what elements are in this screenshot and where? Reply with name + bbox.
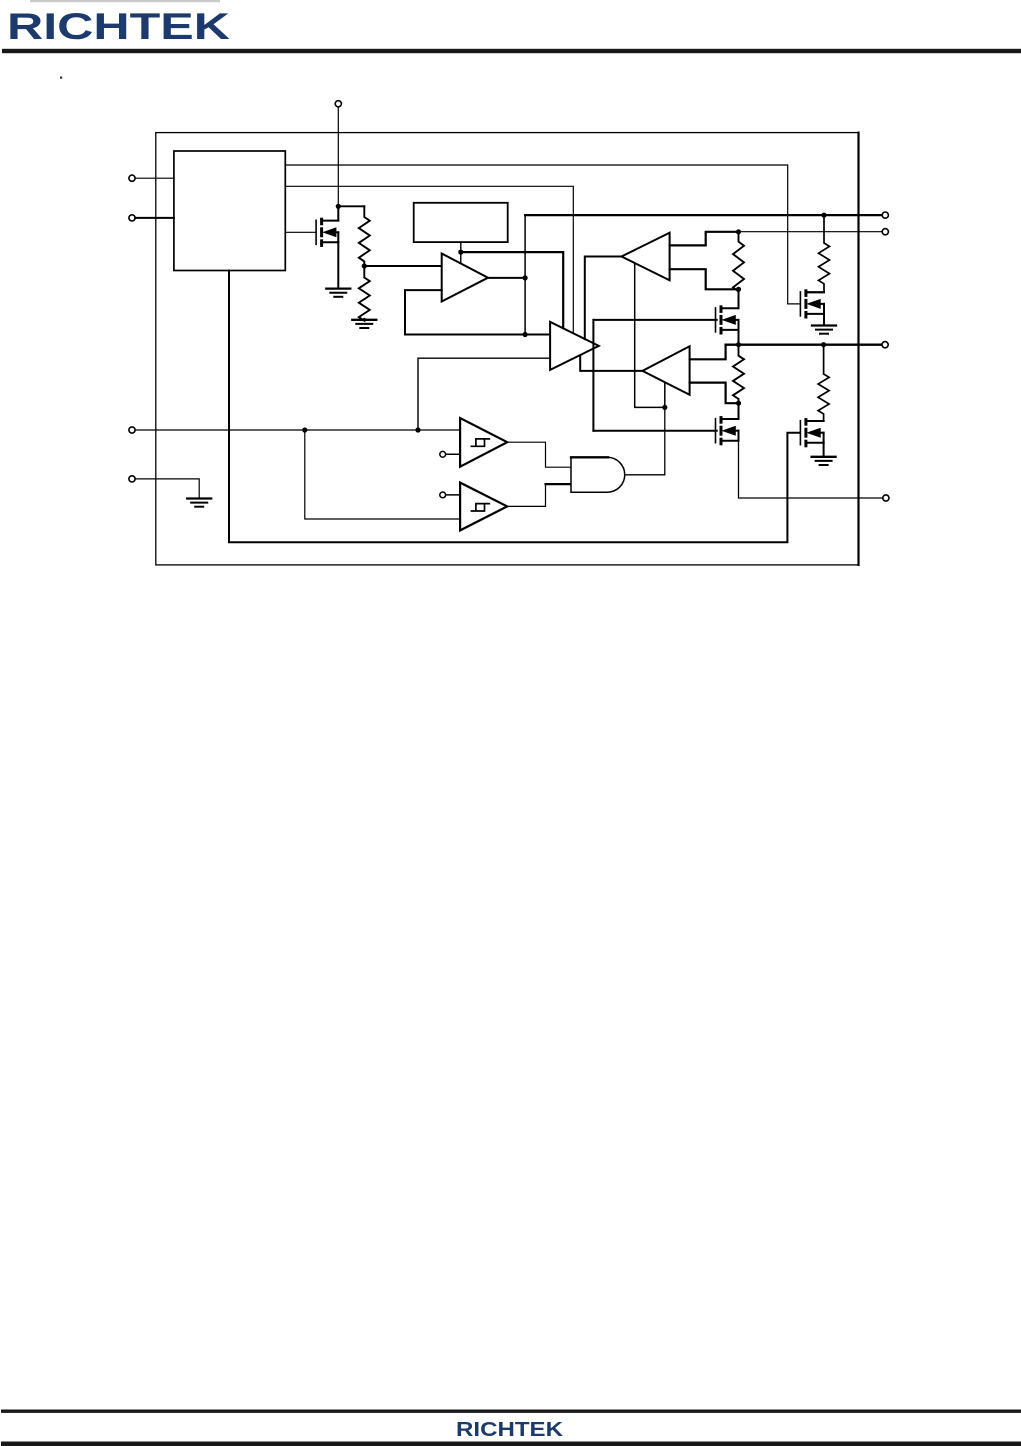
wire M4 drain up <box>738 403 740 419</box>
scan artifact top edge <box>30 0 220 2</box>
node C junction <box>458 250 463 255</box>
comparator CMP2 <box>643 346 690 395</box>
control block U1 <box>174 151 285 271</box>
pin OUT4 terminal <box>883 495 889 501</box>
wire OA1 output <box>488 277 525 279</box>
IC boundary box <box>156 133 859 565</box>
wire gate link M2/M4 <box>592 320 594 431</box>
wire IN bus <box>525 214 882 216</box>
node H junction (R3 bottom) <box>736 287 741 292</box>
wire ST2 out to AND <box>507 484 545 506</box>
bubble input ST2 <box>440 492 446 498</box>
header rule <box>2 49 1021 53</box>
wire ST2 bubble stub <box>446 494 461 496</box>
schmitt trigger ST2 <box>460 483 507 531</box>
stray speck <box>60 77 62 79</box>
wire CMP1 output to driver <box>585 257 622 340</box>
wire CMP2 +input to OUT bus <box>690 345 726 360</box>
node K junction (R4 bottom) <box>736 401 741 406</box>
node G junction (R3 top) <box>736 229 741 234</box>
resistor R2 <box>359 266 370 321</box>
wire node A to R1 <box>338 205 364 207</box>
AND gate U4 <box>571 457 625 492</box>
wire CMP1 -input to R3 bottom <box>670 269 739 289</box>
op-amp OA1 <box>442 254 488 302</box>
pin IN2 terminal <box>129 215 135 221</box>
footer rule upper <box>1 1410 1021 1413</box>
pin GND terminal <box>129 476 135 482</box>
wire U1 out2 to driver top <box>285 186 573 333</box>
driver buffer U3 <box>550 322 599 370</box>
wire U2 to node C <box>460 242 462 263</box>
reference block U2 <box>414 203 508 242</box>
bubble input ST1 <box>440 451 446 457</box>
wire CMP1 +input to R3 top <box>670 232 739 246</box>
wire VCC down to node A <box>337 107 339 206</box>
wire M1 drain up <box>337 206 339 220</box>
schmitt trigger ST1 <box>460 418 507 467</box>
wire U1 bottom to M5 gate <box>229 271 799 543</box>
AND gate U4 top edge (heavy) <box>571 456 608 458</box>
resistor R1 <box>359 206 370 266</box>
node E junction (feedback) <box>523 332 528 337</box>
IC boundary right edge (heavy) <box>857 133 859 565</box>
transistor M5 <box>799 421 801 445</box>
wire R5 to M3 drain <box>807 291 824 293</box>
pin OUT1 terminal <box>882 212 888 218</box>
resistor R5 <box>819 215 830 292</box>
transistor M1 <box>315 220 317 244</box>
wire EN branch to ST2 <box>305 430 459 519</box>
transistor M4 <box>715 419 717 443</box>
wire IN bus elbow vertical <box>524 215 526 334</box>
node N junction (AND out) <box>662 405 667 410</box>
pin VCC terminal (top) <box>335 101 341 107</box>
ground (GND pin) <box>187 497 211 499</box>
wire ST1 bubble stub <box>446 453 461 455</box>
comparator CMP1 <box>622 233 670 281</box>
wire sense line to pin <box>739 231 883 233</box>
wire CMP2 output to driver <box>580 355 642 371</box>
wire AND out up-branch <box>664 383 666 408</box>
wire IN1 to U1 <box>135 177 174 179</box>
transistor M2 <box>715 308 717 332</box>
wire GND pin to ground <box>135 479 199 498</box>
node L junction <box>302 427 307 432</box>
wire node C to driver top <box>461 252 563 328</box>
wire M2 source to OUT bus <box>738 330 740 345</box>
node A junction <box>336 204 341 209</box>
wire M4 source to pin <box>739 441 883 498</box>
ground (R2) <box>352 319 376 321</box>
wire EN line <box>135 429 459 431</box>
wire driver to M4 gate <box>593 430 716 432</box>
ground (M1 source) <box>326 287 350 289</box>
wire U1 gate drive to M1 <box>285 231 316 233</box>
hysteresis symbol ST2 <box>471 504 489 511</box>
wire AND out <box>625 409 665 475</box>
wire OA1 feedback loop <box>405 290 550 334</box>
wire driver to M2 gate <box>593 319 716 321</box>
hysteresis symbol ST1 <box>471 439 489 446</box>
wire IN2 to U1 <box>135 217 174 219</box>
resistor R3 <box>733 232 744 292</box>
wire M1 source down <box>337 242 339 287</box>
wire M2 drain up <box>738 289 740 308</box>
node I junction (M2 source) <box>736 342 741 347</box>
svg-text:RICHTEK: RICHTEK <box>456 1418 563 1441</box>
resistor R4 <box>733 345 744 404</box>
transistor M3 <box>799 292 801 316</box>
wire EN branch to driver <box>418 358 550 430</box>
node J junction (R6 top) <box>821 342 826 347</box>
wire M3 source down <box>823 314 825 325</box>
footer rule lower <box>1 1442 1021 1446</box>
wire AND lower input stub <box>546 483 571 485</box>
node B junction (R1/R2) <box>362 263 367 268</box>
pin IN1 terminal <box>129 175 135 181</box>
node D junction (OA1 out) <box>523 275 528 280</box>
wire U1 out1 to M3 gate <box>285 165 799 304</box>
pin EN terminal <box>129 427 135 433</box>
pin OUT3 terminal <box>882 342 888 348</box>
node M junction <box>415 427 420 432</box>
wire CMP2 -input to R4 bottom <box>690 383 739 404</box>
resistor R6 <box>818 345 829 421</box>
wire node B to op-amp <box>364 265 441 267</box>
wire OUT bus <box>726 344 883 346</box>
wire AND out to CMP1 <box>635 263 665 407</box>
node F junction (IN bus / R5) <box>821 213 826 218</box>
svg-text:RICHTEK: RICHTEK <box>7 6 230 47</box>
wire ST1 out to AND <box>507 442 570 467</box>
wire M5 source down <box>823 443 825 456</box>
pin OUT2 terminal <box>882 229 888 235</box>
ground (M3 source) <box>812 324 836 326</box>
ground (M5 source) <box>812 456 836 458</box>
wire R6 to M5 drain <box>807 420 823 422</box>
